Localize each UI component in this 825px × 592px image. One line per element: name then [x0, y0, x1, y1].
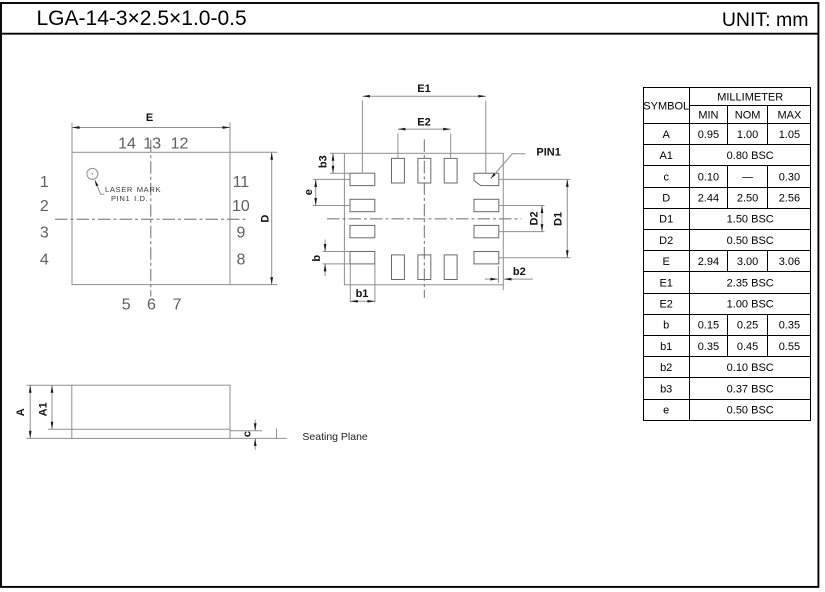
svg-text:A: A [15, 408, 27, 416]
svg-text:0.30: 0.30 [779, 171, 800, 183]
pad 3 left [350, 199, 375, 211]
pad 4 left [350, 225, 375, 237]
svg-text:UNIT: mm: UNIT: mm [722, 9, 809, 31]
svg-text:c: c [242, 431, 254, 437]
svg-text:PIN1: PIN1 [536, 147, 560, 159]
svg-text:A1: A1 [37, 402, 49, 416]
svg-text:b1: b1 [356, 288, 369, 300]
pad 2 left [350, 173, 375, 185]
svg-text:14: 14 [118, 135, 136, 152]
pad 1 pin1 chamfered [474, 173, 499, 185]
pin number 2 [40, 198, 49, 215]
svg-text:0.80 BSC: 0.80 BSC [727, 150, 774, 162]
pad 10 right [474, 199, 499, 211]
pad 6b bottom [418, 255, 431, 280]
side view body [72, 385, 230, 438]
svg-text:0.50 BSC: 0.50 BSC [727, 405, 774, 417]
svg-text:MILLIMETER: MILLIMETER [717, 91, 783, 103]
svg-text:—: — [742, 171, 753, 183]
svg-text:3.06: 3.06 [779, 256, 800, 268]
pin number 5 [122, 296, 131, 313]
svg-text:b2: b2 [513, 266, 526, 278]
dimension D [230, 152, 277, 284]
svg-text:0.25: 0.25 [737, 320, 758, 332]
svg-text:D1: D1 [659, 214, 673, 226]
pad 5 left [350, 252, 375, 264]
svg-text:10: 10 [232, 198, 250, 215]
bottom view horizontal centerline [327, 218, 521, 220]
svg-text:b: b [311, 255, 323, 262]
pad 5b bottom [392, 255, 405, 280]
svg-text:b3: b3 [660, 383, 672, 395]
dimension E2 [398, 117, 451, 159]
svg-text:D2: D2 [659, 235, 673, 247]
laser mark leader [95, 180, 104, 194]
svg-text:LGA-14-3×2.5×1.0-0.5: LGA-14-3×2.5×1.0-0.5 [37, 7, 247, 30]
svg-text:2.50: 2.50 [737, 193, 758, 205]
svg-text:E1: E1 [417, 83, 430, 95]
svg-text:0.10: 0.10 [698, 171, 719, 183]
svg-text:12: 12 [171, 135, 189, 152]
table row D [662, 193, 800, 205]
svg-text:0.35: 0.35 [779, 320, 800, 332]
table row b2 [660, 362, 774, 374]
svg-text:0.15: 0.15 [698, 320, 719, 332]
dimension e [303, 179, 350, 205]
top view horizontal centerline [55, 218, 249, 220]
table row b1 [660, 341, 800, 353]
svg-text:1.50 BSC: 1.50 BSC [727, 214, 774, 226]
pad 7b bottom [444, 255, 457, 280]
svg-text:11: 11 [233, 174, 250, 191]
svg-text:0.37 BSC: 0.37 BSC [727, 383, 774, 395]
svg-text:Seating Plane: Seating Plane [302, 431, 368, 443]
svg-text:0.55: 0.55 [779, 341, 800, 353]
svg-text:9: 9 [236, 224, 245, 241]
top view vertical centerline [150, 140, 152, 297]
pin number 12 [171, 135, 189, 152]
pin number 13 [143, 135, 161, 152]
table row A1 [659, 150, 773, 162]
svg-text:LASER MARK: LASER MARK [105, 185, 161, 194]
pad 13 top [418, 158, 431, 183]
svg-text:MAX: MAX [777, 109, 802, 121]
table row A [663, 129, 801, 141]
svg-text:c: c [663, 171, 669, 183]
svg-text:SYMBOL: SYMBOL [643, 100, 689, 112]
svg-text:e: e [663, 405, 669, 417]
svg-text:7: 7 [173, 296, 182, 313]
svg-text:E1: E1 [659, 277, 672, 289]
dimension D1 [499, 179, 571, 257]
table row E2 [659, 299, 773, 311]
table row b [663, 320, 800, 332]
svg-text:e: e [303, 189, 315, 195]
svg-text:1: 1 [40, 174, 49, 191]
svg-text:D1: D1 [553, 212, 565, 226]
dimension A [15, 385, 72, 438]
pin number 8 [236, 251, 245, 268]
table row b3 [660, 383, 774, 395]
seating plane text [302, 431, 368, 443]
seating plane tick [276, 429, 278, 439]
svg-text:6: 6 [147, 296, 156, 313]
pad 9 right [474, 225, 499, 237]
svg-text:D: D [662, 193, 670, 205]
svg-text:D2: D2 [528, 211, 540, 225]
top view body [72, 152, 230, 284]
svg-text:1.00: 1.00 [737, 129, 758, 141]
unit text [722, 9, 809, 31]
svg-text:NOM: NOM [735, 109, 761, 121]
svg-text:D: D [259, 215, 271, 223]
laser mark text [105, 185, 161, 203]
svg-text:0.35: 0.35 [698, 341, 719, 353]
svg-text:0.10 BSC: 0.10 BSC [727, 362, 774, 374]
svg-text:2.94: 2.94 [698, 256, 719, 268]
pin number 7 [173, 296, 182, 313]
pad 8 right [474, 252, 499, 264]
svg-text:MIN: MIN [698, 109, 718, 121]
svg-text:0.45: 0.45 [737, 341, 758, 353]
pin number 4 [40, 251, 49, 268]
table grid [644, 88, 811, 421]
svg-text:0.50 BSC: 0.50 BSC [727, 235, 774, 247]
dimension b [311, 240, 350, 276]
svg-text:2.44: 2.44 [698, 193, 719, 205]
svg-text:2: 2 [40, 198, 49, 215]
table row E [663, 256, 801, 268]
dimension A1 [37, 385, 71, 429]
dimension b3 [318, 153, 350, 173]
pin number 9 [236, 224, 245, 241]
svg-text:b: b [663, 320, 669, 332]
svg-text:b3: b3 [318, 155, 330, 168]
svg-text:5: 5 [122, 296, 131, 313]
bottom view body [344, 153, 503, 284]
svg-text:1.05: 1.05 [779, 129, 800, 141]
laser mark circle [87, 168, 98, 179]
pad 14 top [392, 158, 405, 183]
svg-text:E2: E2 [417, 117, 430, 129]
title separator [1, 33, 818, 35]
svg-text:3.00: 3.00 [737, 256, 758, 268]
svg-text:b2: b2 [660, 362, 672, 374]
dimension c [230, 420, 262, 450]
svg-text:3: 3 [40, 224, 49, 241]
pin1 leader [491, 147, 561, 179]
svg-text:1.00 BSC: 1.00 BSC [727, 299, 774, 311]
svg-text:PIN1 I.D.: PIN1 I.D. [111, 194, 148, 203]
dimension D2 [499, 206, 545, 232]
table row E1 [659, 277, 773, 289]
table row c [663, 171, 800, 183]
pin number 14 [118, 135, 136, 152]
dimension b2 [485, 266, 533, 290]
pin number 11 [233, 174, 250, 191]
svg-text:b1: b1 [660, 341, 672, 353]
pad 12 top [444, 158, 457, 183]
svg-text:8: 8 [236, 251, 245, 268]
bottom view vertical centerline [423, 139, 425, 298]
side view substrate line [72, 428, 230, 430]
dimension E1 [362, 83, 485, 173]
table header [643, 91, 802, 121]
pin number 3 [40, 224, 49, 241]
svg-text:0.95: 0.95 [698, 129, 719, 141]
table row D2 [659, 235, 774, 247]
svg-text:13: 13 [143, 135, 161, 152]
pin number 6 [147, 296, 156, 313]
svg-text:2.56: 2.56 [779, 193, 800, 205]
seating plane line [230, 437, 287, 439]
svg-text:E2: E2 [659, 299, 672, 311]
pin number 1 [40, 174, 49, 191]
title text [37, 7, 247, 30]
dimension b1 [350, 264, 375, 303]
svg-text:E: E [146, 112, 153, 124]
svg-text:4: 4 [40, 251, 49, 268]
table row e [663, 405, 774, 417]
svg-text:E: E [663, 256, 670, 268]
svg-text:2.35 BSC: 2.35 BSC [727, 277, 774, 289]
pin number 10 [232, 198, 250, 215]
svg-text:A1: A1 [659, 150, 672, 162]
dimension E [72, 112, 230, 152]
svg-text:A: A [663, 129, 671, 141]
table row D1 [659, 214, 774, 226]
